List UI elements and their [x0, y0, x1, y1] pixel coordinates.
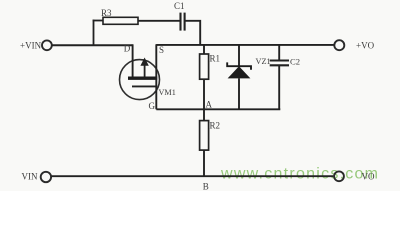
svg-text:R1: R1 [210, 54, 221, 64]
svg-text:VIN: VIN [22, 172, 38, 182]
svg-text:G: G [149, 101, 156, 111]
terminal +VO [334, 40, 344, 50]
resistor R3 [103, 17, 138, 24]
transistor VM1 channel bar [128, 76, 157, 79]
svg-text:+VIN: +VIN [20, 41, 42, 51]
svg-text:www.cntronics.com: www.cntronics.com [220, 166, 378, 183]
svg-text:C2: C2 [290, 57, 300, 67]
wire R1 top lead [203, 45, 205, 54]
wire R1 bottom lead [203, 79, 205, 109]
svg-text:B: B [203, 181, 209, 191]
svg-text:VO: VO [362, 172, 375, 182]
terminal VO (bottom) [334, 171, 344, 181]
svg-text:C1: C1 [174, 1, 185, 11]
wire +VIN to drain corner [52, 44, 133, 46]
wire R2 bottom lead [203, 150, 205, 176]
terminal +VIN [42, 40, 52, 50]
transistor VM1 gate bar [132, 85, 157, 87]
transistor VM1 body circle [120, 60, 160, 100]
svg-text:R2: R2 [210, 121, 221, 131]
bottom rail VIN to VO [52, 175, 334, 177]
output rail to +VO [156, 44, 334, 46]
svg-text:R3: R3 [101, 8, 112, 18]
resistor R2 [200, 121, 209, 151]
transistor VM1 source lead [155, 44, 157, 86]
svg-text:D: D [124, 43, 131, 53]
wire R3 to C1 [138, 20, 180, 22]
wire R3 left lead [93, 20, 103, 22]
wire C1 to output rail [186, 21, 201, 45]
wire node A down to R2 [203, 109, 205, 120]
svg-text:A: A [206, 100, 213, 110]
transistor VM1 arrow [140, 58, 148, 78]
node A rail [156, 108, 280, 110]
transistor VM1 drain lead [132, 44, 134, 77]
wire VIN node up to R3 [93, 20, 95, 46]
svg-text:S: S [159, 45, 164, 55]
svg-text:VM1: VM1 [159, 88, 176, 97]
svg-text:+VO: +VO [356, 41, 375, 51]
resistor R1 [200, 54, 209, 79]
capacitor C2 [270, 45, 289, 109]
zener diode VZ1 [227, 45, 251, 109]
terminal VIN (bottom) [41, 172, 51, 182]
capacitor C1 [181, 13, 185, 31]
wire gate down to node A rail [155, 86, 157, 109]
svg-text:VZ1: VZ1 [256, 57, 271, 66]
